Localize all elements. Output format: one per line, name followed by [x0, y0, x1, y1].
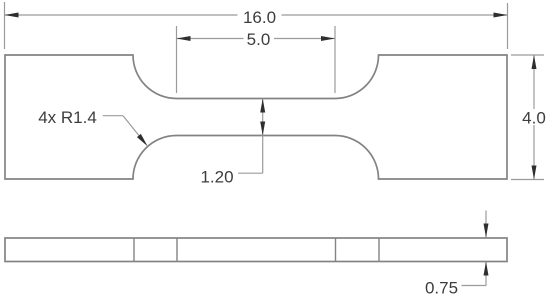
side view tangent line 3 [335, 238, 337, 262]
dimension 1.20 leader horizontal [238, 172, 263, 174]
specimen top view outline (dog-bone) [5, 55, 507, 179]
side view tangent line 4 [378, 238, 380, 262]
dimension 0.75 leader horizontal [462, 285, 487, 287]
dimension 1.20 arrow down [260, 122, 265, 136]
svg-text:16.0: 16.0 [243, 8, 276, 27]
dimension 1.20 line vertical [262, 99, 264, 174]
svg-text:5.0: 5.0 [247, 30, 271, 49]
dimension 0.75 arrow up [484, 262, 489, 276]
dimension 1.20 arrow up [260, 99, 265, 113]
svg-text:4.0: 4.0 [522, 109, 546, 128]
dimension 16.0 extension line right [507, 3, 509, 49]
dimension 16.0 arrow left [5, 13, 19, 18]
leader 4x R1.4 horizontal [103, 115, 123, 117]
leader 4x R1.4 arrow [137, 134, 148, 147]
dimension 5.0 line [177, 38, 336, 40]
svg-text:0.75: 0.75 [425, 279, 458, 298]
dimension 0.75 arrow down [484, 224, 489, 238]
dimension 4.0 extension line bottom [511, 179, 544, 181]
svg-text:1.20: 1.20 [200, 168, 233, 187]
dimension 4.0 line [533, 55, 535, 180]
side view tangent line 2 [176, 238, 178, 262]
dimension 0.75 lower arrow line [485, 262, 487, 286]
dimension 5.0 extension line left [176, 26, 178, 93]
side view tangent line 1 [133, 238, 135, 262]
dimension 5.0 extension line right [334, 26, 336, 93]
dimension 5.0 arrow left [177, 36, 191, 41]
dimension 16.0 line [5, 14, 508, 16]
specimen side view rectangle [5, 238, 507, 262]
dimension 0.75 upper arrow line [485, 211, 487, 238]
dimension 4.0 extension line top [511, 54, 544, 56]
dimension 16.0 arrow right [494, 13, 508, 18]
dimension 5.0 arrow right [321, 36, 335, 41]
svg-text:4x R1.4: 4x R1.4 [38, 108, 97, 127]
leader 4x R1.4 diagonal [123, 116, 140, 137]
dimension 16.0 extension line left [4, 2, 6, 49]
dimension 4.0 arrow bottom [532, 166, 537, 180]
dimension 4.0 arrow top [532, 55, 537, 69]
